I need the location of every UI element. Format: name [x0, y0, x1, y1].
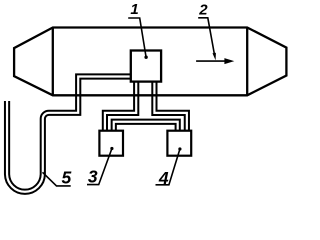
leader arrowhead 2	[213, 53, 216, 61]
leader line label 2	[198, 18, 216, 61]
box 3	[99, 131, 123, 156]
leader dot 4	[178, 147, 181, 150]
leader line label 3	[87, 147, 114, 185]
flow arrow (item 2)	[196, 58, 234, 64]
tube box3 to box4	[114, 122, 178, 133]
leader line label 1	[128, 18, 148, 59]
impulse tube from device 1 to U-manometer 5 (incl. U-tube)	[7, 77, 132, 192]
tube box1 to box4	[154, 79, 186, 133]
box 4	[167, 131, 191, 156]
svg-text:2: 2	[198, 1, 208, 18]
leader line label 5	[43, 172, 71, 186]
leader dot 1	[144, 56, 147, 59]
duct left seam	[52, 28, 54, 96]
tube box1 to box3	[105, 79, 136, 133]
box 1 (device in duct)	[131, 51, 161, 82]
leader dot 3	[110, 147, 113, 150]
duct right seam	[246, 28, 248, 96]
svg-text:1: 1	[130, 1, 138, 18]
svg-text:3: 3	[88, 166, 98, 186]
svg-text:4: 4	[158, 168, 169, 188]
duct (wind tunnel) outline	[14, 28, 286, 96]
leader line label 4	[156, 147, 182, 184]
svg-text:5: 5	[62, 168, 72, 188]
